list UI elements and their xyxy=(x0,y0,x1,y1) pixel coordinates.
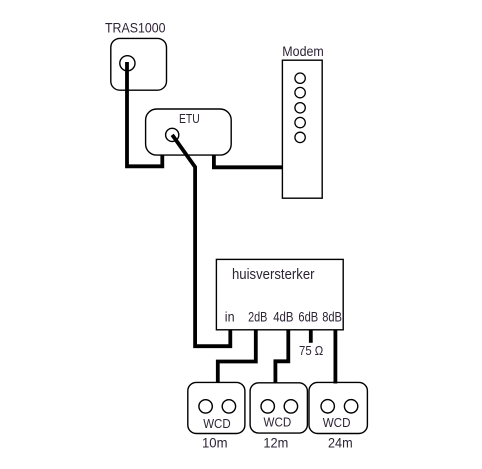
Modem LED 1 xyxy=(295,73,305,83)
WCD1 socket hole right xyxy=(222,400,235,413)
box Modem xyxy=(282,60,322,198)
svg-text:WCD: WCD xyxy=(264,416,292,430)
box ETU xyxy=(146,109,232,155)
svg-text:24m: 24m xyxy=(328,435,353,451)
wire ETU right leg to Modem xyxy=(214,155,283,168)
connector TRAS1000 coax socket xyxy=(120,56,135,71)
svg-text:6dB: 6dB xyxy=(298,309,318,324)
Modem LED 2 xyxy=(295,87,305,97)
Modem LED 4 xyxy=(295,117,305,127)
svg-text:WCD: WCD xyxy=(323,416,351,430)
wire 4dB tap to WCD2 xyxy=(275,330,288,384)
svg-text:WCD: WCD xyxy=(203,417,231,431)
box WCD2 xyxy=(250,383,307,433)
wire 6dB stub with 75 ohm terminator xyxy=(309,330,313,343)
WCD2 socket hole right xyxy=(284,400,297,413)
box WCD3 xyxy=(309,382,367,433)
svg-text:2dB: 2dB xyxy=(248,309,267,324)
svg-text:8dB: 8dB xyxy=(322,309,342,324)
Modem LED 3 xyxy=(295,103,305,113)
svg-text:12m: 12m xyxy=(263,435,288,451)
WCD2 socket hole left xyxy=(261,400,274,413)
wire ETU diagonal down to huisversterker in-port xyxy=(172,135,230,346)
connector ETU coax socket xyxy=(166,128,179,141)
wire TRAS1000 down, along, up into ETU left leg xyxy=(127,62,162,166)
WCD3 socket hole left xyxy=(321,400,334,413)
svg-text:75 Ω: 75 Ω xyxy=(299,343,324,358)
svg-text:Modem: Modem xyxy=(282,43,324,59)
svg-text:in: in xyxy=(225,309,235,324)
wire 8dB tap to WCD3 xyxy=(333,330,337,384)
box WCD1 xyxy=(188,382,245,433)
WCD1 socket hole left xyxy=(199,400,212,413)
box TRAS1000 wall outlet xyxy=(111,38,167,90)
svg-text:10m: 10m xyxy=(202,435,228,451)
svg-text:ETU: ETU xyxy=(179,112,200,126)
WCD3 socket hole right xyxy=(344,400,357,413)
wire 2dB tap to WCD1 xyxy=(218,330,256,383)
svg-text:huisversterker: huisversterker xyxy=(232,266,315,283)
svg-text:4dB: 4dB xyxy=(273,309,293,324)
Modem LED 5 xyxy=(295,132,305,142)
box huisversterker xyxy=(216,259,343,329)
svg-text:TRAS1000: TRAS1000 xyxy=(105,20,166,36)
